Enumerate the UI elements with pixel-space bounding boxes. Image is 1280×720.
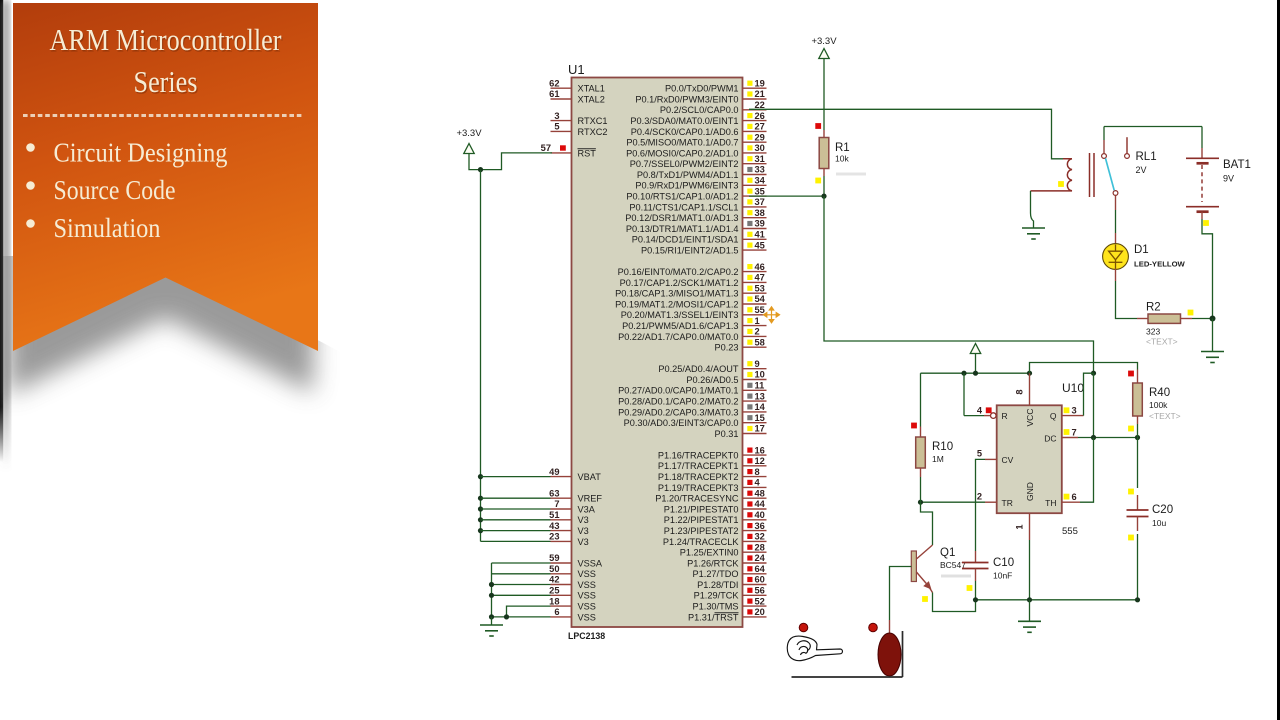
svg-text:6: 6 bbox=[1072, 492, 1077, 502]
svg-text:57: 57 bbox=[541, 143, 551, 153]
svg-text:22: 22 bbox=[755, 100, 765, 110]
battery BAT1 9V bbox=[1186, 127, 1251, 226]
svg-text:P0.17/CAP1.2/SCK1/MAT1.2: P0.17/CAP1.2/SCK1/MAT1.2 bbox=[620, 278, 739, 288]
svg-text:555: 555 bbox=[1062, 526, 1078, 537]
svg-text:46: 46 bbox=[755, 262, 765, 272]
svg-text:R2: R2 bbox=[1146, 302, 1161, 314]
svg-text:50: 50 bbox=[549, 564, 559, 574]
svg-text:58: 58 bbox=[755, 337, 765, 347]
U1 pin 23 V3 bbox=[549, 532, 589, 547]
svg-text:19: 19 bbox=[755, 78, 765, 88]
ground 555 bbox=[1018, 600, 1041, 633]
svg-text:P0.12/DSR1/MAT1.0/AD1.3: P0.12/DSR1/MAT1.0/AD1.3 bbox=[625, 213, 738, 223]
svg-text:<TEXT>: <TEXT> bbox=[1149, 411, 1181, 421]
svg-text:P0.15/RI1/EINT2/AD1.5: P0.15/RI1/EINT2/AD1.5 bbox=[641, 246, 739, 256]
svg-text:10nF: 10nF bbox=[993, 571, 1012, 581]
svg-text:P0.22/AD1.7/CAP0.0/MAT0.0: P0.22/AD1.7/CAP0.0/MAT0.0 bbox=[618, 332, 738, 342]
svg-text:ARM Microcontroller: ARM Microcontroller bbox=[50, 22, 283, 57]
U1 pin 37 P0.11/CTS1/CAP1.1/SCL1 bbox=[629, 197, 766, 212]
svg-text:37: 37 bbox=[755, 197, 765, 207]
svg-text:LPC2138: LPC2138 bbox=[568, 631, 605, 641]
U1 pin 8 P1.18/TRACEPKT2 bbox=[658, 467, 767, 482]
svg-text:R40: R40 bbox=[1149, 387, 1170, 399]
svg-text:49: 49 bbox=[549, 467, 559, 477]
wires to VBAT/VREF/V3A/V3 bbox=[481, 477, 551, 542]
svg-text:P1.27/TDO: P1.27/TDO bbox=[693, 569, 739, 579]
svg-text:P0.30/AD0.3/EINT3/CAP0.0: P0.30/AD0.3/EINT3/CAP0.0 bbox=[624, 418, 739, 428]
svg-text:U10: U10 bbox=[1062, 381, 1084, 395]
svg-text:VSS: VSS bbox=[578, 580, 596, 590]
svg-text:P1.29/TCK: P1.29/TCK bbox=[694, 591, 740, 601]
svg-text:VREF: VREF bbox=[578, 494, 603, 504]
svg-text:V3A: V3A bbox=[578, 504, 596, 514]
svg-text:30: 30 bbox=[755, 143, 765, 153]
U10 pin 1 GND bbox=[1015, 513, 1030, 600]
svg-text:P0.23: P0.23 bbox=[714, 343, 738, 353]
svg-text:Source Code: Source Code bbox=[54, 175, 176, 205]
U1 pin 52 P1.30/TMS bbox=[693, 596, 767, 611]
svg-text:P0.27/AD0.0/CAP0.1/MAT0.1: P0.27/AD0.0/CAP0.1/MAT0.1 bbox=[618, 386, 738, 396]
wire relay to battery bbox=[1104, 126, 1202, 128]
wire Q1 emitter to gnd rail bbox=[933, 593, 976, 612]
U1 pin 26 P0.3/SDA0/MAT0.0/EINT1 bbox=[630, 111, 766, 126]
U1 pin 16 P1.16/TRACEPKT0 bbox=[658, 445, 767, 460]
svg-text:40: 40 bbox=[755, 510, 765, 520]
svg-text:TR: TR bbox=[1002, 498, 1013, 508]
svg-text:P0.25/AD0.4/AOUT: P0.25/AD0.4/AOUT bbox=[658, 364, 739, 374]
svg-text:VCC: VCC bbox=[1025, 409, 1035, 427]
svg-text:D1: D1 bbox=[1134, 244, 1149, 256]
svg-text:P0.1/RxD0/PWM3/EINT0: P0.1/RxD0/PWM3/EINT0 bbox=[635, 94, 738, 104]
svg-text:52: 52 bbox=[755, 596, 765, 606]
svg-text:20: 20 bbox=[755, 607, 765, 617]
svg-text:51: 51 bbox=[549, 510, 559, 520]
svg-text:8: 8 bbox=[1015, 389, 1025, 394]
svg-text:P0.5/MISO0/MAT0.1/AD0.7: P0.5/MISO0/MAT0.1/AD0.7 bbox=[626, 138, 738, 148]
svg-text:54: 54 bbox=[755, 294, 766, 304]
svg-text:U1: U1 bbox=[568, 62, 585, 77]
svg-text:P0.6/MOSI0/CAP0.2/AD1.0: P0.6/MOSI0/CAP0.2/AD1.0 bbox=[626, 148, 738, 158]
U1 pin 10 P0.26/AD0.5 bbox=[686, 370, 766, 385]
svg-text:26: 26 bbox=[755, 111, 765, 121]
svg-text:9V: 9V bbox=[1223, 174, 1234, 184]
wire 555 VCC rail bbox=[921, 371, 1097, 376]
svg-text:P0.26/AD0.5: P0.26/AD0.5 bbox=[686, 375, 738, 385]
U1 pin 36 P1.23/PIPESTAT2 bbox=[664, 521, 767, 536]
svg-text:P0.4/SCK0/CAP0.1/AD0.6: P0.4/SCK0/CAP0.1/AD0.6 bbox=[631, 127, 739, 137]
svg-text:7: 7 bbox=[1072, 428, 1077, 438]
svg-text:39: 39 bbox=[755, 219, 765, 229]
svg-text:P0.16/EINT0/MAT0.2/CAP0.2: P0.16/EINT0/MAT0.2/CAP0.2 bbox=[618, 267, 739, 277]
bullet: Circuit Designing bbox=[26, 138, 227, 168]
svg-text:59: 59 bbox=[549, 553, 559, 563]
svg-text:P1.24/TRACECLK: P1.24/TRACECLK bbox=[663, 537, 739, 547]
resistor R10 1M bbox=[911, 373, 953, 502]
U10 pin 3 Q bbox=[1062, 373, 1094, 415]
svg-text:1: 1 bbox=[755, 316, 760, 326]
U1 pin 17 P0.31 bbox=[714, 424, 766, 439]
svg-text:48: 48 bbox=[755, 488, 765, 498]
U1 pin 30 P0.6/MOSI0/CAP0.2/AD1.0 bbox=[626, 143, 766, 158]
U1 pin 57 RST bbox=[541, 143, 597, 158]
U1 pin 34 P0.9/RxD1/PWM6/EINT3 bbox=[635, 176, 766, 191]
power +3.3V left bbox=[456, 128, 482, 170]
U1 pin 22 P0.2/SCL0/CAP0.0 bbox=[660, 100, 767, 115]
svg-text:25: 25 bbox=[549, 586, 559, 596]
svg-text:60: 60 bbox=[755, 575, 765, 585]
U1 pin 4 P1.19/TRACEPKT3 bbox=[658, 478, 767, 493]
U10 pin 2 TR bbox=[918, 492, 997, 505]
left edge shadow bbox=[0, 0, 9, 468]
U1 pin 43 V3 bbox=[549, 521, 589, 536]
svg-text:P1.26/RTCK: P1.26/RTCK bbox=[687, 558, 739, 568]
U1 pin 31 P0.7/SSEL0/PWM2/EINT2 bbox=[630, 154, 767, 169]
svg-text:32: 32 bbox=[755, 532, 765, 542]
svg-text:Series: Series bbox=[134, 64, 198, 99]
svg-text:53: 53 bbox=[755, 283, 765, 293]
svg-text:62: 62 bbox=[549, 78, 559, 88]
U1 pin 58 P0.23 bbox=[714, 337, 766, 352]
U1 pin 2 P0.22/AD1.7/CAP0.0/MAT0.0 bbox=[618, 327, 766, 342]
U1 pin 24 P1.26/RTCK bbox=[687, 553, 766, 568]
U1 pin 59 VSSA bbox=[549, 553, 603, 568]
capacitor C10 10nF bbox=[962, 551, 1014, 600]
svg-text:V3: V3 bbox=[578, 515, 589, 525]
svg-text:12: 12 bbox=[755, 456, 765, 466]
svg-text:10k: 10k bbox=[835, 154, 849, 164]
svg-text:27: 27 bbox=[755, 122, 765, 132]
svg-text:P0.18/CAP1.3/MISO1/MAT1.3: P0.18/CAP1.3/MISO1/MAT1.3 bbox=[615, 289, 738, 299]
title: ARM Microcontroller Series bbox=[51, 24, 284, 101]
svg-text:R: R bbox=[1002, 411, 1008, 421]
svg-text:P1.25/EXTIN0: P1.25/EXTIN0 bbox=[680, 548, 739, 558]
svg-text:Simulation: Simulation bbox=[54, 213, 161, 243]
svg-text:9: 9 bbox=[755, 359, 760, 369]
wire R1 node down to 555 bbox=[824, 196, 1094, 373]
svg-text:LED-YELLOW: LED-YELLOW bbox=[1134, 260, 1186, 269]
U1 pin 13 P0.28/AD0.1/CAP0.2/MAT0.2 bbox=[618, 391, 766, 406]
LED D1 LED-YELLOW bbox=[1103, 244, 1186, 270]
svg-text:44: 44 bbox=[755, 499, 766, 509]
U1 pin 9 P0.25/AD0.4/AOUT bbox=[658, 359, 766, 374]
svg-text:RST: RST bbox=[578, 148, 597, 158]
U1 pin 19 P0.0/TxD0/PWM1 bbox=[665, 78, 767, 93]
U1 pin 38 P0.12/DSR1/MAT1.0/AD1.3 bbox=[625, 208, 766, 223]
svg-text:P0.21/PWM5/AD1.6/CAP1.3: P0.21/PWM5/AD1.6/CAP1.3 bbox=[622, 321, 738, 331]
svg-text:P0.8/TxD1/PWM4/AD1.1: P0.8/TxD1/PWM4/AD1.1 bbox=[637, 170, 739, 180]
dashed separator bbox=[23, 114, 304, 117]
relay RL1 switch bbox=[1102, 127, 1157, 196]
svg-text:C10: C10 bbox=[993, 557, 1014, 569]
svg-text:C20: C20 bbox=[1152, 504, 1173, 516]
U1 pin 39 P0.13/DTR1/MAT1.1/AD1.4 bbox=[626, 219, 767, 234]
svg-text:P0.2/SCL0/CAP0.0: P0.2/SCL0/CAP0.0 bbox=[660, 105, 739, 115]
U1 pin 18 VSS bbox=[549, 596, 596, 611]
svg-text:R10: R10 bbox=[932, 441, 953, 453]
bullet: Simulation bbox=[26, 213, 161, 243]
U1 pin 53 P0.18/CAP1.3/MISO1/MAT1.3 bbox=[615, 283, 766, 298]
wire Q1 base to touch plate bbox=[890, 567, 912, 635]
svg-text:24: 24 bbox=[755, 553, 766, 563]
wire left 3.3V rail bbox=[478, 170, 483, 542]
svg-text:P0.29/AD0.2/CAP0.3/MAT0.3: P0.29/AD0.2/CAP0.3/MAT0.3 bbox=[618, 407, 738, 417]
svg-text:21: 21 bbox=[755, 89, 765, 99]
hand icon bbox=[787, 636, 842, 661]
U1 pin 47 P0.17/CAP1.2/SCK1/MAT1.2 bbox=[620, 273, 767, 288]
svg-text:2: 2 bbox=[755, 327, 760, 337]
svg-text:1M: 1M bbox=[932, 454, 944, 464]
svg-text:DC: DC bbox=[1044, 434, 1056, 444]
svg-text:47: 47 bbox=[755, 273, 765, 283]
svg-text:P0.3/SDA0/MAT0.0/EINT1: P0.3/SDA0/MAT0.0/EINT1 bbox=[630, 116, 738, 126]
svg-text:45: 45 bbox=[755, 240, 765, 250]
bullet: Source Code bbox=[26, 175, 175, 205]
right edge black bar bbox=[1277, 0, 1280, 720]
svg-text:P1.20/TRACESYNC: P1.20/TRACESYNC bbox=[655, 494, 739, 504]
svg-text:29: 29 bbox=[755, 132, 765, 142]
svg-text:7: 7 bbox=[554, 499, 559, 509]
U1 pin 1 P0.21/PWM5/AD1.6/CAP1.3 bbox=[622, 316, 766, 331]
wire switch to D1 bbox=[1115, 196, 1117, 246]
svg-text:11: 11 bbox=[755, 381, 765, 391]
svg-text:31: 31 bbox=[755, 154, 765, 164]
svg-text:TH: TH bbox=[1045, 498, 1056, 508]
U1 pin 50 VSS bbox=[549, 564, 596, 579]
svg-text:P0.9/RxD1/PWM6/EINT3: P0.9/RxD1/PWM6/EINT3 bbox=[635, 181, 738, 191]
U10 pin 8 VCC bbox=[1015, 373, 1030, 405]
svg-text:4: 4 bbox=[977, 406, 983, 416]
svg-text:43: 43 bbox=[549, 521, 559, 531]
svg-text:64: 64 bbox=[755, 564, 766, 574]
svg-text:P1.19/TRACEPKT3: P1.19/TRACEPKT3 bbox=[658, 483, 739, 493]
U1 pin 54 P0.19/MAT1.2/MOSI1/CAP1.2 bbox=[615, 294, 766, 309]
svg-text:P0.19/MAT1.2/MOSI1/CAP1.2: P0.19/MAT1.2/MOSI1/CAP1.2 bbox=[615, 299, 738, 309]
U1 pin 51 V3 bbox=[549, 510, 589, 525]
relay RL1 coil bbox=[1031, 153, 1095, 197]
node marker left bbox=[799, 623, 808, 632]
svg-text:2V: 2V bbox=[1136, 165, 1147, 175]
svg-text:P1.30/TMS: P1.30/TMS bbox=[693, 602, 739, 612]
svg-text:3: 3 bbox=[554, 111, 559, 121]
svg-text:V3: V3 bbox=[578, 526, 589, 536]
ground relay bbox=[1022, 228, 1045, 239]
U1 pin 32 P1.24/TRACECLK bbox=[663, 532, 767, 547]
U1 pin 49 VBAT bbox=[549, 467, 601, 482]
U1 pin 45 P0.15/RI1/EINT2/AD1.5 bbox=[641, 240, 767, 255]
svg-text:VSS: VSS bbox=[578, 569, 596, 579]
power +3.3V at R1 bbox=[811, 36, 837, 130]
svg-text:42: 42 bbox=[549, 575, 559, 585]
U1 pin 41 P0.14/DCD1/EINT1/SDA1 bbox=[632, 230, 767, 245]
svg-text:6: 6 bbox=[554, 607, 559, 617]
wire VSS rail bbox=[489, 563, 551, 620]
U1 pin 21 P0.1/RxD0/PWM3/EINT0 bbox=[635, 89, 766, 104]
U1 pin 64 P1.27/TDO bbox=[693, 564, 767, 579]
svg-text:P0.28/AD0.1/CAP0.2/MAT0.2: P0.28/AD0.1/CAP0.2/MAT0.2 bbox=[618, 397, 738, 407]
svg-text:41: 41 bbox=[755, 230, 765, 240]
ribbon shadow bbox=[8, 45, 318, 395]
U10 pin 6 TH bbox=[1062, 438, 1094, 503]
U1 pin 63 VREF bbox=[549, 488, 602, 503]
555 timer U10 body bbox=[997, 381, 1085, 537]
wire TR node to Q1 collector bbox=[921, 502, 933, 545]
U1 pin 14 P0.29/AD0.2/CAP0.3/MAT0.3 bbox=[618, 402, 766, 417]
svg-text:13: 13 bbox=[755, 391, 765, 401]
svg-text:38: 38 bbox=[755, 208, 765, 218]
U1 pin 12 P1.17/TRACEPKT1 bbox=[658, 456, 767, 471]
svg-text:2: 2 bbox=[977, 492, 982, 502]
wire relay coil to ground bbox=[1031, 191, 1034, 228]
svg-text:RTXC1: RTXC1 bbox=[578, 116, 608, 126]
svg-text:VSS: VSS bbox=[578, 602, 596, 612]
svg-text:VSSA: VSSA bbox=[578, 558, 603, 568]
U1 pin 27 P0.4/SCK0/CAP0.1/AD0.6 bbox=[631, 122, 767, 137]
U1 pin 42 VSS bbox=[549, 575, 596, 590]
U1 pin 61 XTAL2 bbox=[549, 89, 605, 104]
svg-text:P0.20/MAT1.3/SSEL1/EINT3: P0.20/MAT1.3/SSEL1/EINT3 bbox=[621, 310, 739, 320]
U1 pin 48 P1.20/TRACESYNC bbox=[655, 488, 766, 503]
U1 pin 29 P0.5/MISO0/MAT0.1/AD0.7 bbox=[626, 132, 766, 147]
svg-text:P0.13/DTR1/MAT1.1/AD1.4: P0.13/DTR1/MAT1.1/AD1.4 bbox=[626, 224, 739, 234]
U1 pin 28 P1.25/EXTIN0 bbox=[680, 542, 767, 557]
wire battery to R2 node bbox=[1202, 219, 1213, 319]
svg-text:<TEXT>: <TEXT> bbox=[1146, 337, 1178, 347]
ground VSS bbox=[480, 617, 503, 636]
svg-text:10: 10 bbox=[755, 370, 765, 380]
U1 pin 62 XTAL1 bbox=[549, 78, 605, 93]
svg-text:15: 15 bbox=[755, 413, 765, 423]
svg-text:P0.14/DCD1/EINT1/SDA1: P0.14/DCD1/EINT1/SDA1 bbox=[632, 235, 739, 245]
U1 pin 3 RTXC1 bbox=[551, 111, 608, 126]
resistor R40 100k bbox=[1128, 370, 1181, 438]
svg-text:RL1: RL1 bbox=[1136, 151, 1157, 163]
node marker right bbox=[869, 623, 878, 632]
svg-text:18: 18 bbox=[549, 596, 559, 606]
svg-text:5: 5 bbox=[554, 122, 559, 132]
svg-text:5: 5 bbox=[977, 449, 982, 459]
svg-text:1: 1 bbox=[1015, 524, 1025, 529]
U1 pin 40 P1.22/PIPESTAT1 bbox=[664, 510, 767, 525]
svg-text:P0.7/SSEL0/PWM2/EINT2: P0.7/SSEL0/PWM2/EINT2 bbox=[630, 159, 739, 169]
svg-text:P1.16/TRACEPKT0: P1.16/TRACEPKT0 bbox=[658, 451, 739, 461]
svg-text:P0.10/RTS1/CAP1.0/AD1.2: P0.10/RTS1/CAP1.0/AD1.2 bbox=[626, 192, 738, 202]
U10 pin 4 R bbox=[964, 373, 996, 418]
microcontroller U1 body bbox=[568, 62, 743, 641]
U1 pin 33 P0.8/TxD1/PWM4/AD1.1 bbox=[637, 165, 767, 180]
svg-text:3: 3 bbox=[1072, 406, 1077, 416]
svg-text:+3.3V: +3.3V bbox=[456, 128, 482, 139]
svg-text:V3: V3 bbox=[578, 537, 589, 547]
svg-text:35: 35 bbox=[755, 186, 765, 196]
cursor cross bbox=[764, 307, 780, 323]
U10 pin 7 DC bbox=[1062, 428, 1140, 441]
ground at R2/battery bbox=[1201, 319, 1224, 363]
svg-text:VBAT: VBAT bbox=[578, 472, 602, 482]
svg-text:P1.18/TRACEPKT2: P1.18/TRACEPKT2 bbox=[658, 472, 739, 482]
ribbon banner bbox=[13, 3, 318, 351]
svg-text:+3.3V: +3.3V bbox=[811, 36, 837, 47]
svg-text:61: 61 bbox=[549, 89, 559, 99]
transistor Q1 BC547 bbox=[911, 545, 971, 602]
svg-text:34: 34 bbox=[755, 176, 766, 186]
svg-text:63: 63 bbox=[549, 488, 559, 498]
svg-text:8: 8 bbox=[755, 467, 760, 477]
svg-text:XTAL2: XTAL2 bbox=[578, 94, 605, 104]
svg-text:P1.31/TRST: P1.31/TRST bbox=[688, 612, 739, 622]
touch contact electrode bbox=[792, 631, 903, 677]
wire R1 to pin35 node bbox=[749, 176, 827, 199]
U10 pin 5 CV bbox=[976, 449, 997, 552]
resistor R2 323 bbox=[1137, 302, 1216, 347]
svg-text:100k: 100k bbox=[1149, 400, 1168, 410]
svg-text:Q1: Q1 bbox=[940, 547, 955, 559]
svg-text:GND: GND bbox=[1025, 482, 1035, 501]
svg-text:4: 4 bbox=[755, 478, 761, 488]
svg-text:323: 323 bbox=[1146, 327, 1160, 337]
svg-text:P1.28/TDI: P1.28/TDI bbox=[697, 580, 738, 590]
U1 pin 15 P0.30/AD0.3/EINT3/CAP0.0 bbox=[624, 413, 767, 428]
wire P0.2 pin22 to relay coil bbox=[749, 109, 1063, 159]
svg-text:33: 33 bbox=[755, 165, 765, 175]
capacitor C20 10u bbox=[1127, 438, 1174, 600]
svg-text:P1.21/PIPESTAT0: P1.21/PIPESTAT0 bbox=[664, 504, 739, 514]
U1 pin 25 VSS bbox=[549, 586, 596, 601]
U1 pin 55 P0.20/MAT1.3/SSEL1/EINT3 bbox=[621, 305, 767, 320]
svg-text:56: 56 bbox=[755, 586, 765, 596]
svg-text:BAT1: BAT1 bbox=[1223, 159, 1251, 171]
svg-text:36: 36 bbox=[755, 521, 765, 531]
svg-text:Q: Q bbox=[1050, 411, 1057, 421]
wire Q/DC vertical bbox=[1093, 373, 1095, 437]
svg-text:P0.31: P0.31 bbox=[714, 429, 738, 439]
wire rail to R40 bbox=[1030, 363, 1138, 374]
wire 555 ground rail bbox=[973, 597, 1140, 602]
U1 pin 56 P1.29/TCK bbox=[694, 586, 767, 601]
U1 pin 7 V3A bbox=[551, 499, 596, 514]
svg-text:28: 28 bbox=[755, 542, 765, 552]
svg-text:10u: 10u bbox=[1152, 518, 1166, 528]
svg-text:R1: R1 bbox=[835, 142, 850, 154]
wire D1 to R2 bbox=[1116, 269, 1138, 319]
svg-text:17: 17 bbox=[755, 424, 765, 434]
U1 pin 11 P0.27/AD0.0/CAP0.1/MAT0.1 bbox=[618, 381, 766, 396]
svg-text:16: 16 bbox=[755, 445, 765, 455]
svg-text:55: 55 bbox=[755, 305, 765, 315]
svg-text:CV: CV bbox=[1002, 455, 1014, 465]
U1 pin 44 P1.21/PIPESTAT0 bbox=[664, 499, 767, 514]
svg-text:P0.0/TxD0/PWM1: P0.0/TxD0/PWM1 bbox=[665, 84, 739, 94]
svg-text:P1.17/TRACEPKT1: P1.17/TRACEPKT1 bbox=[658, 461, 739, 471]
svg-text:RTXC2: RTXC2 bbox=[578, 127, 608, 137]
svg-text:14: 14 bbox=[755, 402, 766, 412]
svg-text:P0.11/CTS1/CAP1.1/SCL1: P0.11/CTS1/CAP1.1/SCL1 bbox=[629, 202, 738, 212]
svg-text:P1.22/PIPESTAT1: P1.22/PIPESTAT1 bbox=[664, 515, 739, 525]
svg-text:VSS: VSS bbox=[578, 612, 596, 622]
svg-text:XTAL1: XTAL1 bbox=[578, 84, 605, 94]
svg-text:VSS: VSS bbox=[578, 591, 596, 601]
wire RST net bbox=[478, 153, 552, 172]
power +3.3V at 555 bbox=[970, 344, 980, 374]
U1 pin 60 P1.28/TDI bbox=[697, 575, 766, 590]
U1 pin 35 P0.10/RTS1/CAP1.0/AD1.2 bbox=[626, 186, 766, 201]
U1 pin 20 P1.31/TRST bbox=[688, 607, 767, 622]
resistor R1 10k bbox=[815, 123, 866, 183]
svg-text:P1.23/PIPESTAT2: P1.23/PIPESTAT2 bbox=[664, 526, 739, 536]
svg-text:23: 23 bbox=[549, 532, 559, 542]
U1 pin 6 VSS bbox=[551, 607, 596, 622]
U1 pin 5 RTXC2 bbox=[551, 122, 608, 137]
svg-text:Circuit Designing: Circuit Designing bbox=[54, 138, 228, 168]
